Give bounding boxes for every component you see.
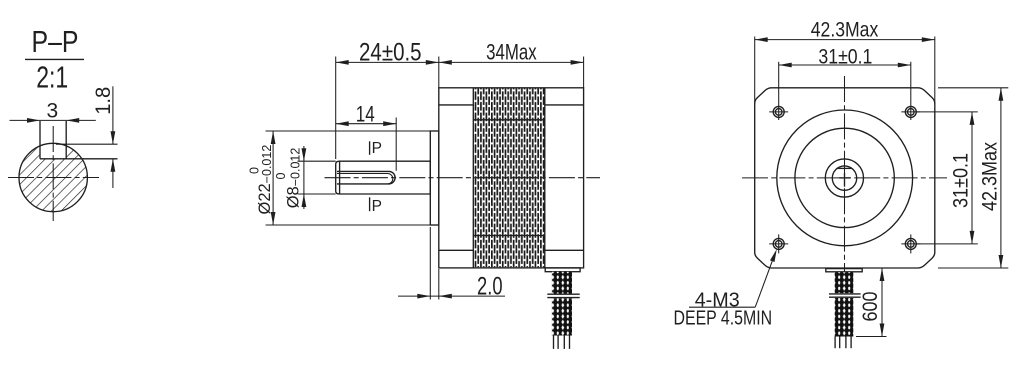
dimension 3 line (10, 119, 96, 121)
arrow Ø22 top (271, 131, 276, 144)
svg-text:DEEP 4.5MIN: DEEP 4.5MIN (674, 307, 773, 330)
shaft flat slot inner line (337, 174, 393, 184)
arrow 14 right (383, 121, 396, 126)
shaft flat slot outer (337, 171, 395, 184)
centerline middle view (325, 177, 601, 179)
dimension 42.3Max right line (1000, 88, 1002, 268)
lead wires middle view (553, 336, 555, 349)
svg-text:0: 0 (274, 173, 288, 180)
dimension 600 extension bottom (856, 336, 887, 338)
callout 4-M3 leader underline (689, 306, 755, 308)
dimension 24±0.5 extension left (335, 57, 337, 160)
shaft section circle hatch fill (19, 143, 87, 211)
chamfer line top left (439, 104, 474, 106)
arrow 24 left (336, 60, 349, 65)
front face square with chamfered corners (755, 88, 935, 268)
dimension 31±0.1 top line (779, 64, 911, 66)
dimension Ø8 extension top (298, 160, 336, 162)
extension line top of circle (56, 143, 118, 145)
view centerline vertical (844, 76, 846, 272)
dimension 3 arrow left (27, 118, 40, 123)
arrow Ø8 top (302, 148, 307, 161)
svg-text:24±0.5: 24±0.5 (359, 39, 422, 67)
texture internal line upper (473, 119, 545, 121)
wire bundle front view (835, 272, 854, 336)
svg-text:P–P: P–P (32, 24, 79, 59)
svg-text:14: 14 (356, 101, 375, 126)
arrows 600 (880, 268, 885, 281)
dimension 14 extension right (395, 118, 397, 171)
dimension 42.3Max top line (755, 39, 935, 41)
shaft inner circle (832, 166, 856, 190)
dimension 2.0 extension left (429, 227, 431, 300)
svg-text:600: 600 (859, 292, 882, 322)
arrow Ø22 bottom (271, 212, 276, 225)
chamfer line bottom right (545, 249, 584, 251)
mounting hole top-left (773, 106, 784, 117)
arrow 24 right (426, 60, 439, 65)
shaft end chamfer line (339, 161, 341, 194)
vertical centerline (52, 126, 54, 221)
chamfer line top right (545, 104, 584, 106)
texture band right edge (544, 88, 546, 268)
svg-text:P: P (372, 198, 382, 215)
arrows 42.3 right (999, 88, 1004, 101)
dimension 42.3Max right: extensions (938, 87, 1008, 89)
dimension 14 line (336, 123, 397, 125)
dimension Ø22 line (272, 131, 274, 225)
dimension extension at flange face (438, 57, 440, 88)
dimension 3 arrow right (66, 118, 79, 123)
dimension Ø8 extension bottom (298, 193, 336, 195)
wire exit plate front view (826, 269, 862, 272)
dimension 2.0 extension right (438, 269, 440, 300)
callout leader diagonal (755, 261, 772, 307)
svg-text:2:1: 2:1 (36, 60, 68, 95)
lead wires front view (834, 337, 836, 349)
svg-text:3: 3 (46, 100, 58, 123)
shaft section circle outline (19, 143, 87, 211)
horizontal centerline (8, 177, 99, 179)
wire bundle middle view (552, 272, 572, 336)
dimension line 24 and 34 (336, 61, 584, 63)
dimension Ø22 extension top (266, 130, 431, 132)
mounting hole bottom-right (905, 238, 916, 249)
arrow 34 left (439, 60, 452, 65)
dimension 31±0.1 right line (971, 112, 973, 244)
arrows 42.3 top (755, 37, 768, 42)
lamination texture band (473, 88, 545, 267)
svg-text:1.8: 1.8 (92, 87, 115, 115)
pilot boss circle (795, 128, 894, 227)
arrow 34 right (571, 60, 584, 65)
section mark P bottom bar (369, 197, 371, 211)
svg-text:34Max: 34Max (486, 39, 537, 64)
slot side left (39, 121, 41, 159)
texture band left edge (472, 88, 474, 268)
shaft (336, 161, 431, 194)
mounting hole top-right (905, 106, 916, 117)
svg-text:2.0: 2.0 (477, 272, 503, 300)
dimension 1.8 arrow up (111, 159, 116, 172)
chamfer line bottom left (439, 249, 474, 251)
dimension extension at body rear (583, 57, 585, 88)
dimension 1.8 line upper (112, 86, 114, 144)
dimension Ø22 extension bottom (266, 224, 431, 226)
svg-text:42.3Max: 42.3Max (811, 18, 879, 41)
arrow 14 left (336, 121, 349, 126)
svg-text:0: 0 (248, 167, 262, 174)
title underline (25, 58, 84, 60)
wire exit plate middle view (545, 268, 580, 272)
svg-text:31±0.1: 31±0.1 (818, 45, 872, 68)
texture internal line lower (473, 235, 545, 237)
svg-text:P: P (372, 140, 382, 157)
pilot boss (430, 131, 439, 225)
dimension 31±0.1 right: extensions (917, 111, 978, 113)
shaft flat chord (837, 167, 852, 169)
outer housing circle (777, 110, 913, 246)
arrow 2.0 right (439, 294, 452, 299)
mounting hole bottom-left (773, 238, 784, 249)
section mark P top bar (369, 141, 371, 155)
dimension 31±0.1 top: extensions through holes (778, 62, 780, 120)
dimension Ø8 line (303, 146, 305, 209)
dimension 1.8 arrow down (111, 131, 116, 144)
slot white area (40, 139, 66, 159)
callout leader arrow (770, 249, 777, 262)
cable tie front view (829, 293, 861, 298)
dimension 2.0 line (398, 295, 505, 297)
slot bottom line extended (40, 158, 118, 160)
view centerline horizontal (742, 177, 947, 179)
dimension 1.8 line lower (112, 159, 114, 188)
center cross (839, 177, 850, 179)
arrows 31 top (779, 63, 792, 68)
arrows 31 right (970, 112, 975, 125)
arrow 2.0 left (417, 294, 430, 299)
cable tie middle view (547, 294, 579, 299)
dimension 42.3Max top: extensions (754, 37, 756, 105)
svg-text:42.3Max: 42.3Max (979, 142, 1002, 211)
shaft circle (825, 159, 863, 197)
motor body side view outline (439, 88, 584, 268)
dimension 600 line (881, 268, 883, 337)
slot side right (65, 121, 67, 159)
arrow Ø8 bottom (302, 194, 307, 207)
svg-text:31±0.1: 31±0.1 (950, 153, 973, 208)
